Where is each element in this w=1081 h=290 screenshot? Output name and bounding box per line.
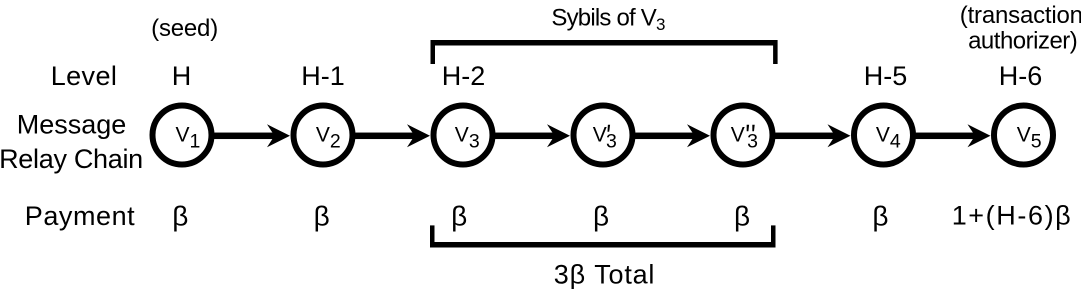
svg-text:H-6: H-6 xyxy=(999,61,1043,91)
wire arrow V3->V3' xyxy=(494,124,570,147)
wire arrow V1->V2 xyxy=(213,124,290,147)
node V5 xyxy=(994,106,1053,165)
svg-text:Relay Chain: Relay Chain xyxy=(0,144,143,174)
svg-text:β: β xyxy=(734,200,750,231)
svg-text:3β Total: 3β Total xyxy=(554,259,655,289)
svg-text:H-5: H-5 xyxy=(864,61,908,91)
node V3 xyxy=(434,106,493,165)
svg-text:H-2: H-2 xyxy=(442,61,486,91)
svg-text:(seed): (seed) xyxy=(151,15,218,42)
svg-text:H: H xyxy=(172,61,192,91)
node V3' xyxy=(574,106,633,165)
svg-text:β: β xyxy=(172,200,188,231)
bracket bottom (3B total) xyxy=(430,225,776,247)
wire arrow V4->V5 xyxy=(915,124,991,147)
svg-text:authorizer): authorizer) xyxy=(968,28,1077,55)
svg-text:Payment: Payment xyxy=(25,201,135,231)
svg-text:(transaction: (transaction xyxy=(960,2,1081,29)
svg-text:Sybils of V3: Sybils of V3 xyxy=(551,4,665,34)
node V2 xyxy=(294,106,353,165)
node V1 xyxy=(153,106,212,165)
svg-text:β: β xyxy=(451,200,467,231)
svg-text:1+(H-6)β: 1+(H-6)β xyxy=(952,201,1073,231)
svg-text:β: β xyxy=(314,200,330,231)
svg-text:Level: Level xyxy=(51,61,118,91)
svg-text:β: β xyxy=(593,200,609,231)
bracket top (Sybils) xyxy=(431,40,778,64)
node V4 xyxy=(854,106,913,165)
svg-text:Message: Message xyxy=(17,110,127,140)
wire arrow V2->V3 xyxy=(354,124,430,147)
node V3'' xyxy=(714,106,773,165)
wire arrow V3'->V3'' xyxy=(634,124,710,147)
svg-text:β: β xyxy=(872,200,888,231)
svg-text:H-1: H-1 xyxy=(301,61,345,91)
wire arrow V3''->V4 xyxy=(774,124,851,147)
